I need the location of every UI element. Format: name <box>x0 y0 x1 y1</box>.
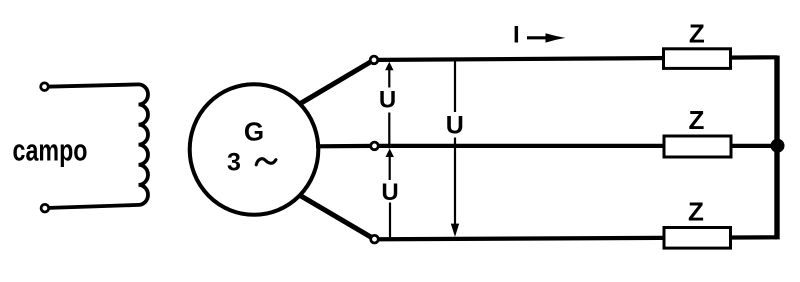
voltage arrow U line-to-line stem lower <box>454 138 456 226</box>
wire phase 2 from generator <box>316 144 375 149</box>
voltage arrow U phase1-phase2 stem upper <box>388 69 390 88</box>
svg-text:U: U <box>379 87 396 114</box>
voltage arrow U phase2-phase3 stem lower <box>389 203 391 238</box>
svg-text:U: U <box>381 179 398 206</box>
terminal phase 1 <box>370 56 378 64</box>
generator G circle <box>190 84 319 215</box>
wire phase 1 top horizontal <box>377 57 777 60</box>
wire phase 1 diagonal from generator <box>299 60 374 104</box>
voltage arrow U phase2-phase3 stem upper <box>389 156 391 181</box>
terminal phase 3 <box>371 235 379 243</box>
voltage arrow U phase1-phase2 arrowhead <box>385 62 393 71</box>
voltage arrow U line-to-line stem upper <box>454 62 456 113</box>
impedance Z1 (top) body <box>664 49 731 69</box>
impedance Z3 (bottom) body <box>664 228 731 249</box>
svg-text:Z: Z <box>688 196 704 226</box>
junction dot neutral node <box>771 139 785 153</box>
svg-text:G: G <box>244 117 264 147</box>
wire phase 3 diagonal from generator <box>299 195 375 239</box>
wire campo top <box>46 84 139 86</box>
field winding coil L1 (campo) <box>139 84 149 205</box>
impedance Z2 (middle) body <box>664 136 731 157</box>
wire campo bottom <box>46 205 139 208</box>
wire phase 2 middle horizontal <box>377 144 777 148</box>
svg-text:Z: Z <box>689 19 705 49</box>
tilde symbol (AC) <box>256 159 276 165</box>
svg-text:Z: Z <box>689 105 705 135</box>
svg-text:I: I <box>513 21 520 48</box>
current arrow I head <box>546 33 566 42</box>
svg-text:U: U <box>446 111 464 139</box>
terminal phase 2 <box>371 142 379 150</box>
current arrow I shaft <box>527 36 547 39</box>
svg-text:campo: campo <box>13 132 88 167</box>
voltage arrow U phase1-phase2 stem lower <box>388 113 390 149</box>
terminal campo top <box>41 83 49 91</box>
voltage arrow U line-to-line arrowhead <box>451 224 459 237</box>
voltage arrow U phase2-phase3 arrowhead <box>386 149 394 158</box>
wire phase 3 bottom horizontal <box>377 237 777 239</box>
wire right vertical bus <box>774 56 779 240</box>
terminal campo bottom <box>41 204 49 212</box>
svg-text:3: 3 <box>227 149 241 177</box>
